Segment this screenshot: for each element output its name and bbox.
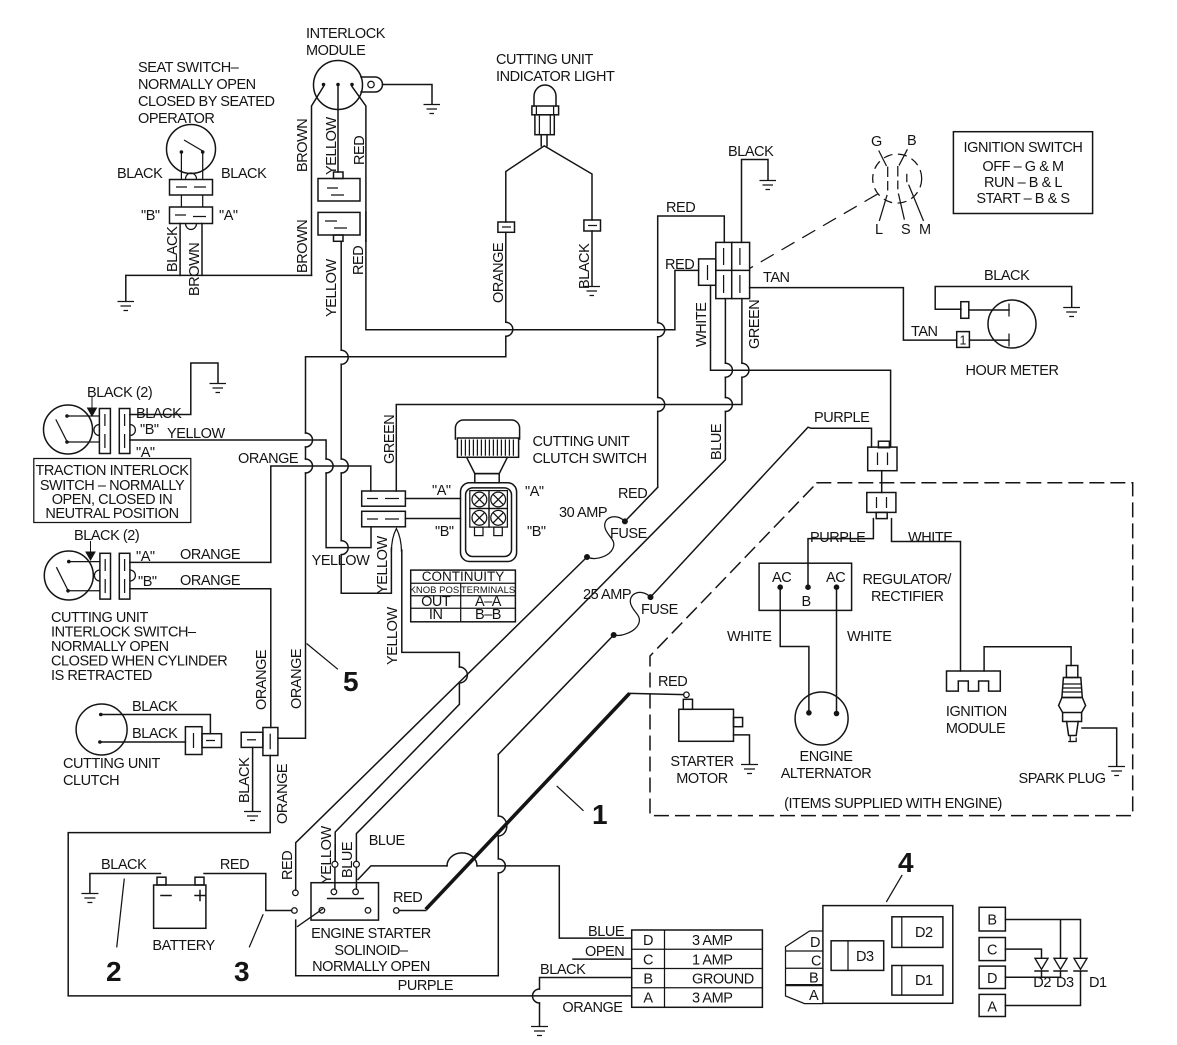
- svg-text:D3: D3: [856, 949, 874, 965]
- wire yellow arrow tail down to diagonal: [335, 550, 459, 861]
- svg-text:CONTINUITY: CONTINUITY: [422, 569, 505, 584]
- wire traction black to ground: [130, 363, 218, 415]
- hop orange vertical over orange horizontal: [306, 459, 313, 473]
- svg-text:WHITE: WHITE: [694, 302, 710, 347]
- svg-text:AC: AC: [772, 570, 791, 586]
- svg-text:BLACK (2): BLACK (2): [87, 385, 152, 401]
- diode D3 symbol: [1054, 958, 1067, 977]
- label 3 with pointer: [234, 914, 263, 987]
- engine alternator G1: [795, 692, 848, 745]
- svg-text:25 AMP: 25 AMP: [583, 587, 631, 603]
- svg-text:BATTERY: BATTERY: [152, 938, 215, 954]
- svg-text:D1: D1: [915, 973, 933, 989]
- clutch switch terminal A1: [470, 491, 489, 509]
- wire black to ground and connector: [742, 160, 769, 243]
- label REGULATOR/RECTIFIER: [863, 572, 953, 605]
- connector on orange: [498, 222, 515, 232]
- hop yellow over orange horizontal: [341, 459, 348, 473]
- wire red top to connector: [658, 216, 725, 487]
- wire seat B black down: [179, 224, 181, 276]
- wire white AC left to alternator: [780, 589, 809, 713]
- svg-text:B: B: [643, 972, 652, 988]
- relay D1: [892, 966, 943, 996]
- svg-text:RED: RED: [665, 257, 694, 273]
- leader B: [899, 149, 907, 165]
- continuity table: [410, 569, 516, 623]
- inline connector on black: [961, 302, 969, 319]
- wire A to diode D1 bottom: [1005, 971, 1080, 1006]
- svg-text:2: 2: [106, 956, 122, 987]
- ignition switch info box: [953, 132, 1092, 214]
- svg-text:CLUTCH: CLUTCH: [63, 773, 119, 789]
- svg-text:NORMALLY OPEN: NORMALLY OPEN: [312, 959, 430, 975]
- cutting unit interlock switch S3: [44, 551, 100, 600]
- label 2 with pointer: [106, 879, 124, 987]
- wire open stub: [573, 958, 632, 960]
- label 1 with pointer: [557, 786, 608, 830]
- diode D2 symbol: [1035, 958, 1048, 977]
- svg-text:IS RETRACTED: IS RETRACTED: [51, 668, 152, 684]
- svg-text:ORANGE: ORANGE: [180, 573, 241, 589]
- wire tan from connector to hour meter: [750, 288, 957, 341]
- svg-text:FUSE: FUSE: [641, 602, 679, 618]
- svg-text:"B": "B": [138, 574, 157, 590]
- svg-text:3 AMP: 3 AMP: [692, 991, 732, 1007]
- svg-text:30 AMP: 30 AMP: [559, 505, 607, 521]
- wire module red down: [352, 87, 366, 242]
- hop yellow over orange-light horizontal: [341, 350, 348, 364]
- wire purple vertical down to bus: [296, 754, 499, 975]
- clutch switch terminal B1: [470, 509, 489, 536]
- ground traction: [210, 384, 227, 393]
- svg-text:YELLOW: YELLOW: [324, 259, 340, 317]
- svg-text:ORANGE: ORANGE: [180, 547, 241, 563]
- leader M: [909, 185, 924, 221]
- hop blue horizontal over heavy line: [447, 853, 477, 866]
- svg-text:"A": "A": [432, 483, 451, 499]
- wire black from table to ground with hop over orange bus: [540, 978, 632, 1027]
- fuse block module box: [823, 906, 953, 1004]
- hop yellow over yellow2 horizontal: [341, 541, 348, 555]
- svg-text:D1: D1: [1089, 975, 1107, 991]
- label IGNITION MODULE: [946, 704, 1007, 737]
- terminal box B: [979, 907, 1005, 931]
- clutch switch body: [461, 483, 517, 562]
- wire red to starter motor: [630, 693, 684, 694]
- svg-text:BLACK: BLACK: [165, 226, 181, 272]
- svg-text:BLACK: BLACK: [577, 243, 593, 289]
- svg-text:"B": "B": [527, 524, 546, 540]
- ground battery: [81, 894, 98, 903]
- arrow black2 cutting: [86, 541, 95, 560]
- svg-text:RED: RED: [220, 857, 249, 873]
- svg-text:1: 1: [960, 334, 967, 348]
- svg-text:TAN: TAN: [763, 270, 790, 286]
- seat switch S1: [167, 125, 216, 180]
- wire module to spark plug: [984, 647, 1071, 671]
- interlock module U1: [314, 61, 383, 110]
- svg-text:BROWN: BROWN: [295, 220, 311, 273]
- svg-text:BLUE: BLUE: [340, 841, 356, 878]
- seat switch connector block: [170, 180, 213, 230]
- svg-text:RED: RED: [618, 486, 647, 502]
- svg-text:A: A: [643, 991, 653, 1007]
- label STARTER MOTOR: [670, 754, 733, 787]
- svg-text:CUTTING UNIT: CUTTING UNIT: [63, 756, 160, 772]
- label ENGINE STARTER SOLINOID: [311, 926, 431, 975]
- svg-text:YELLOW: YELLOW: [324, 117, 340, 175]
- wire cutting B orange down to connector: [130, 589, 271, 728]
- connector on black: [584, 220, 601, 231]
- svg-text:"A": "A": [219, 208, 238, 224]
- wire tan box to meter: [969, 339, 1009, 341]
- svg-text:WHITE: WHITE: [847, 629, 892, 645]
- svg-text:B: B: [987, 913, 996, 929]
- svg-text:RED: RED: [658, 674, 687, 690]
- svg-text:"B": "B": [141, 208, 160, 224]
- svg-text:A: A: [987, 1000, 997, 1016]
- relay D2: [892, 917, 943, 948]
- fuse amp table: [632, 930, 763, 1007]
- wire B to diode tops: [1005, 920, 1080, 959]
- fuse 25 amp: [611, 592, 654, 638]
- svg-text:C: C: [987, 943, 997, 959]
- leader S: [898, 194, 904, 220]
- wire purple solenoid bottom tap: [295, 920, 297, 976]
- svg-text:"A": "A": [525, 484, 544, 500]
- svg-text:ORANGE: ORANGE: [289, 648, 305, 709]
- wire orange horizontal to clutch connector: [271, 466, 371, 562]
- wire solenoid right terminal to heavy line: [399, 910, 426, 912]
- svg-text:RED: RED: [666, 200, 695, 216]
- wire battery negative to ground: [90, 874, 161, 894]
- terminal box C: [979, 938, 1005, 961]
- ground spark plug: [1108, 767, 1125, 776]
- svg-text:ORANGE: ORANGE: [491, 242, 507, 303]
- svg-text:1 AMP: 1 AMP: [692, 953, 732, 969]
- arrow black2 traction: [88, 397, 97, 416]
- svg-text:BROWN: BROWN: [187, 243, 203, 296]
- wire spark plug to ground: [1082, 728, 1117, 766]
- svg-text:3 AMP: 3 AMP: [692, 933, 732, 949]
- svg-text:RED: RED: [393, 890, 422, 906]
- ignition module shape: [947, 671, 1001, 691]
- main harness connector J1: [716, 242, 750, 298]
- svg-text:CUTTING UNIT: CUTTING UNIT: [533, 434, 630, 450]
- svg-text:BROWN: BROWN: [295, 119, 311, 172]
- wire indicator light right black: [545, 146, 593, 220]
- svg-text:C: C: [811, 954, 821, 970]
- svg-text:IGNITION: IGNITION: [946, 704, 1007, 720]
- svg-text:PURPLE: PURPLE: [814, 410, 870, 426]
- ground hour meter: [1063, 308, 1080, 317]
- ignition switch rotary: [873, 154, 922, 203]
- clutch switch neck: [467, 457, 508, 473]
- fuse 30 amp: [584, 517, 628, 560]
- svg-text:BLACK: BLACK: [540, 962, 586, 978]
- svg-text:GROUND: GROUND: [692, 972, 754, 988]
- ground starter motor: [741, 765, 758, 774]
- svg-text:A: A: [809, 988, 819, 1004]
- svg-text:YELLOW: YELLOW: [385, 607, 401, 665]
- wire purple connector to regulator B: [808, 519, 873, 588]
- svg-text:G: G: [871, 134, 882, 150]
- svg-text:D2: D2: [915, 925, 933, 941]
- wire module tab to ground: [383, 85, 433, 105]
- wire module red lower down: [365, 212, 367, 241]
- svg-text:INDICATOR LIGHT: INDICATOR LIGHT: [496, 69, 615, 85]
- starter motor M2: [679, 699, 743, 741]
- traction interlock switch S2: [44, 405, 100, 454]
- svg-text:REGULATOR/: REGULATOR/: [863, 572, 953, 588]
- wire battery positive to solenoid: [204, 874, 292, 911]
- wire indicator light left orange: [506, 135, 547, 222]
- spark plug P1: [1059, 666, 1086, 742]
- svg-text:RED: RED: [280, 851, 296, 880]
- svg-text:B–B: B–B: [475, 607, 501, 623]
- hop purple vertical over blue horizontal: [498, 859, 505, 873]
- interlock module connector upper: [318, 172, 360, 201]
- wire traction yellow B: [130, 440, 371, 548]
- svg-text:NEUTRAL POSITION: NEUTRAL POSITION: [45, 506, 178, 522]
- svg-text:BLACK: BLACK: [132, 726, 178, 742]
- svg-text:D: D: [643, 933, 653, 949]
- wire box B to switch: [405, 518, 460, 520]
- svg-text:ALTERNATOR: ALTERNATOR: [781, 766, 872, 782]
- label CUTTING UNIT CLUTCH: [63, 756, 160, 789]
- svg-text:MODULE: MODULE: [946, 721, 1006, 737]
- svg-text:BLUE: BLUE: [369, 833, 406, 849]
- svg-text:ORANGE: ORANGE: [562, 1000, 623, 1016]
- svg-text:GREEN: GREEN: [747, 300, 763, 349]
- svg-text:3: 3: [234, 956, 250, 987]
- svg-text:WHITE: WHITE: [908, 530, 953, 546]
- regulator rectifier box: [759, 563, 852, 610]
- wire black from clutch connector to ground: [252, 747, 254, 811]
- svg-text:CUTTING UNIT: CUTTING UNIT: [496, 52, 593, 68]
- diode D1 symbol: [1074, 958, 1087, 971]
- engine connector lower half: [867, 493, 896, 519]
- svg-text:ENGINE STARTER: ENGINE STARTER: [311, 926, 431, 942]
- clutch switch knob cap: [455, 420, 519, 457]
- wire orange below connector with hop over red horizontal: [278, 232, 506, 738]
- wire seat A brown down: [201, 224, 203, 276]
- svg-text:C: C: [643, 953, 653, 969]
- traction interlock text box: [34, 459, 191, 523]
- svg-text:L: L: [875, 222, 883, 238]
- hop orange vertical over yellow horizontal: [306, 433, 313, 447]
- svg-text:MODULE: MODULE: [306, 43, 366, 59]
- interlock module label: [306, 26, 386, 59]
- clutch switch terminal A2: [489, 491, 507, 509]
- starter motor terminal circle: [684, 692, 690, 698]
- terminal 1 box: [957, 332, 970, 348]
- battery B1: [154, 877, 206, 928]
- svg-text:ENGINE: ENGINE: [800, 749, 854, 765]
- wire module yellow lower down long: [341, 241, 391, 593]
- wire starter motor to ground: [734, 735, 750, 764]
- clutch connector pair left: [185, 727, 221, 755]
- heavy wire 1 starter cable: [426, 693, 630, 909]
- svg-text:WHITE: WHITE: [727, 629, 772, 645]
- wire orange below connector to bus: [68, 756, 632, 996]
- connector trapezoid DCBA: [786, 931, 823, 1004]
- ground clutch black: [244, 812, 261, 821]
- cutting unit clutch L1: [76, 704, 127, 755]
- traction connector bars: [94, 409, 135, 454]
- svg-text:ORANGE: ORANGE: [275, 763, 291, 824]
- svg-text:B: B: [907, 133, 916, 149]
- yellow arrow pointing at box B: [391, 529, 401, 553]
- wire purple diagonal through fuse 25A: [498, 427, 871, 754]
- wire module yellow down to box: [337, 87, 339, 173]
- svg-text:B: B: [809, 971, 818, 987]
- engine starter solenoid K1: [292, 883, 400, 927]
- svg-text:BLACK (2): BLACK (2): [74, 528, 139, 544]
- svg-text:GREEN: GREEN: [382, 415, 398, 464]
- hop green vertical over white horizontal: [742, 363, 749, 377]
- svg-text:TAN: TAN: [911, 324, 938, 340]
- wire white connector to ignition module: [892, 519, 961, 671]
- svg-text:ORANGE: ORANGE: [254, 649, 270, 710]
- svg-text:SOLINOID–: SOLINOID–: [334, 943, 409, 959]
- svg-text:BLACK: BLACK: [117, 166, 163, 182]
- svg-text:FUSE: FUSE: [610, 526, 648, 542]
- wire red diagonal through fuse 30A: [296, 487, 658, 890]
- svg-text:"B": "B": [435, 524, 454, 540]
- wire green from connector down, corner left: [396, 299, 742, 491]
- wire module brown down: [312, 87, 324, 276]
- clutch harness connector pair right: [241, 728, 278, 756]
- svg-text:OPEN: OPEN: [585, 944, 624, 960]
- svg-text:D3: D3: [1056, 975, 1074, 991]
- cutting unit interlock text: [51, 610, 227, 684]
- wire black connector to meter: [969, 309, 1009, 311]
- label 5 with pointer: [307, 644, 359, 698]
- svg-text:D: D: [810, 935, 820, 951]
- svg-text:BLUE: BLUE: [709, 423, 725, 460]
- svg-text:YELLOW: YELLOW: [312, 553, 370, 569]
- cutting unit indicator light label: [496, 52, 615, 85]
- wire blue from connector down to diagonal: [356, 299, 725, 862]
- clutch switch knurl lines: [461, 440, 513, 456]
- wire yellow inline connector to solenoid: [332, 845, 338, 889]
- wire blue branch to fuse block D: [358, 866, 632, 938]
- ground indicator light: [584, 287, 601, 296]
- label ENGINE ALTERNATOR: [781, 749, 872, 782]
- svg-text:SPARK PLUG: SPARK PLUG: [1019, 771, 1106, 787]
- dashed mechanical link to connector: [750, 194, 878, 268]
- wire clutch black lower: [102, 741, 186, 743]
- leader G: [879, 151, 887, 167]
- hop red vertical over green horizontal: [658, 398, 665, 412]
- connector box A at clutch switch: [362, 491, 406, 506]
- leader L: [879, 195, 887, 221]
- svg-text:ORANGE: ORANGE: [238, 451, 299, 467]
- svg-text:SEAT SWITCH–: SEAT SWITCH–: [138, 60, 240, 76]
- label 4 with pointer: [886, 847, 914, 902]
- svg-text:BLACK: BLACK: [984, 268, 1030, 284]
- indicator light DS1: [532, 85, 559, 135]
- wire horizontal bus to ground and module brown: [126, 275, 312, 301]
- svg-text:BLACK: BLACK: [221, 166, 267, 182]
- svg-text:D2: D2: [1033, 975, 1051, 991]
- svg-text:S: S: [901, 222, 910, 238]
- clutch switch stem: [475, 474, 499, 483]
- wire white from side connector down: [711, 285, 891, 446]
- svg-text:AC: AC: [826, 570, 845, 586]
- hop black vertical over orange bus: [533, 989, 540, 1003]
- hop purple vertical over heavy line: [498, 816, 507, 836]
- svg-text:OFF – G & M: OFF – G & M: [982, 159, 1063, 175]
- wire clutch black upper: [103, 715, 211, 734]
- svg-text:M: M: [919, 222, 931, 238]
- wire black hour meter to ground: [935, 287, 1071, 310]
- dashed engine boundary box: [650, 483, 1133, 816]
- relay D3: [831, 941, 884, 971]
- engine connector upper half: [868, 441, 897, 471]
- svg-text:IN: IN: [429, 607, 443, 623]
- svg-text:5: 5: [343, 666, 359, 697]
- cutting interlock connector bars: [94, 553, 135, 599]
- svg-text:(ITEMS SUPPLIED WITH ENGINE): (ITEMS SUPPLIED WITH ENGINE): [784, 796, 1002, 812]
- terminal box D: [979, 966, 1005, 988]
- svg-text:BLACK: BLACK: [132, 699, 178, 715]
- wire link between connector halves: [881, 471, 883, 493]
- svg-text:B: B: [802, 594, 811, 610]
- svg-text:CLOSED BY SEATED: CLOSED BY SEATED: [138, 94, 275, 110]
- clutch switch terminal B2: [489, 509, 507, 536]
- svg-text:1: 1: [592, 799, 608, 830]
- svg-text:IGNITION SWITCH: IGNITION SWITCH: [964, 140, 1083, 156]
- wire module red to long horizontal: [366, 241, 699, 330]
- svg-text:BLACK: BLACK: [101, 857, 147, 873]
- svg-text:OPERATOR: OPERATOR: [138, 111, 214, 127]
- wire black to ground: [591, 231, 593, 286]
- wire cutting A orange: [130, 561, 271, 563]
- svg-text:MOTOR: MOTOR: [676, 771, 727, 787]
- hop red vertical over red horizontal: [658, 323, 665, 337]
- hop orange vertical over red horizontal: [506, 322, 513, 336]
- hop blue vertical over green horizontal: [725, 398, 732, 412]
- svg-text:HOUR METER: HOUR METER: [966, 363, 1059, 379]
- svg-text:RED: RED: [352, 136, 368, 165]
- svg-text:BLACK: BLACK: [728, 144, 774, 160]
- wire box A to switch: [405, 498, 460, 500]
- svg-text:BLACK: BLACK: [237, 757, 253, 803]
- wire blue inline connector to solenoid: [353, 861, 359, 889]
- hop traction yellow vertical over orange horizontal: [326, 459, 333, 473]
- wire C to diode D2: [1005, 949, 1041, 958]
- svg-text:RECTIFIER: RECTIFIER: [871, 589, 943, 605]
- hop blue vertical over white horizontal: [725, 363, 732, 377]
- terminal box A: [979, 994, 1005, 1016]
- svg-text:STARTER: STARTER: [670, 754, 733, 770]
- side connector on J1: [699, 259, 716, 285]
- svg-text:INTERLOCK: INTERLOCK: [306, 26, 386, 42]
- svg-text:PURPLE: PURPLE: [398, 978, 454, 994]
- ground seat switch: [118, 302, 135, 311]
- svg-text:YELLOW: YELLOW: [375, 536, 391, 594]
- seat switch label: [138, 60, 275, 127]
- svg-text:BLUE: BLUE: [588, 924, 625, 940]
- ground black top right: [760, 181, 777, 190]
- ground interlock module: [424, 105, 441, 114]
- ground black fuse table: [531, 1027, 548, 1036]
- svg-text:CLUTCH SWITCH: CLUTCH SWITCH: [533, 451, 647, 467]
- svg-text:"B": "B": [140, 422, 159, 438]
- wire white AC right to alternator: [836, 589, 838, 714]
